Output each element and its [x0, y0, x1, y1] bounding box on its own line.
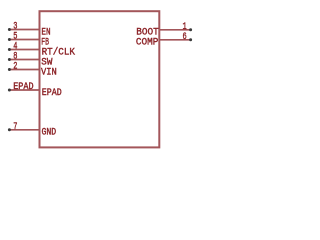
svg-text:EPAD: EPAD — [42, 87, 62, 99]
svg-text:GND: GND — [42, 127, 57, 139]
pin 7 GND — [8, 122, 56, 139]
pin 6 COMP — [136, 32, 192, 49]
pin EPAD — [8, 82, 62, 99]
IC U1 body (TPS54360 buck converter symbol) — [40, 11, 160, 147]
pin 5 FB — [8, 32, 49, 49]
pin 8 SW — [8, 52, 53, 69]
svg-text:COMP: COMP — [136, 37, 159, 49]
pin 3 EN — [8, 22, 51, 39]
pin 2 VIN — [8, 62, 57, 79]
svg-text:VIN: VIN — [41, 66, 57, 78]
svg-text:7: 7 — [13, 122, 17, 133]
svg-text:EPAD: EPAD — [13, 82, 33, 93]
pin 1 BOOT — [136, 22, 192, 39]
pin 4 RT/CLK — [8, 42, 76, 59]
svg-text:6: 6 — [183, 32, 187, 43]
svg-text:2: 2 — [13, 62, 17, 73]
